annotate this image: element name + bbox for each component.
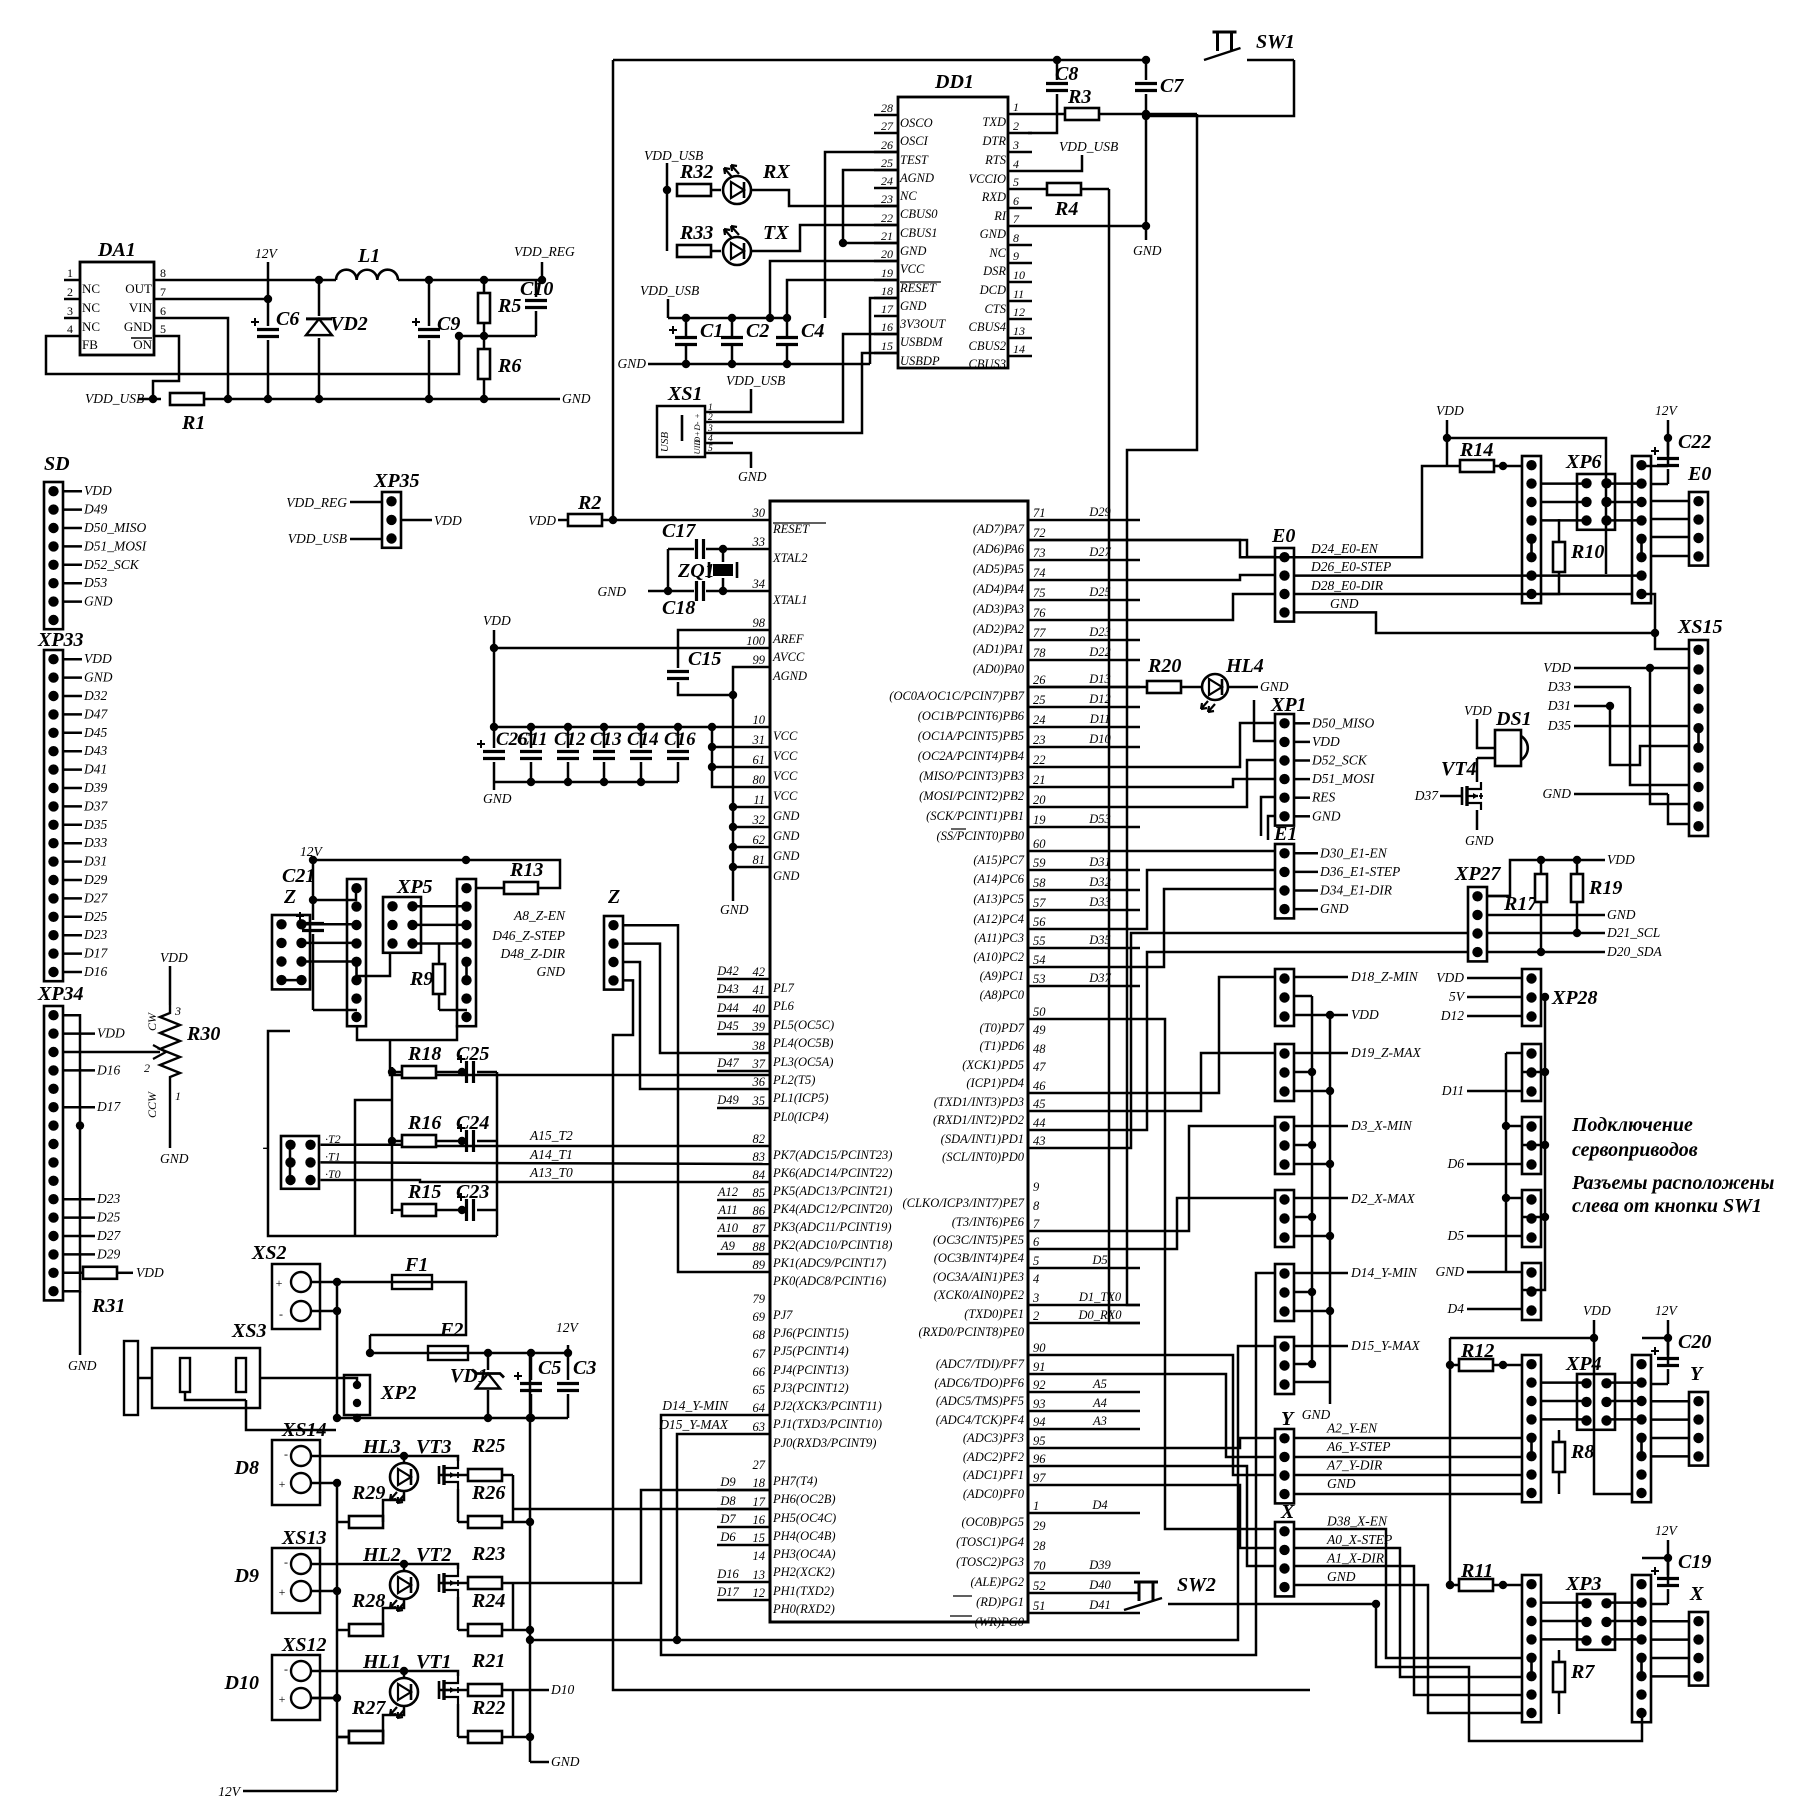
wire AGND pin25	[843, 170, 898, 243]
svg-text:E0: E0	[1271, 525, 1295, 547]
12V feed down	[529, 1352, 532, 1355]
svg-text:R18: R18	[407, 1043, 441, 1065]
SD pin VDD	[63, 490, 82, 493]
svg-text:D14_Y-MIN: D14_Y-MIN	[661, 1398, 729, 1413]
DD1 pin 20 VCC	[874, 260, 898, 263]
svg-text:45: 45	[1033, 1097, 1046, 1111]
svg-text:D33: D33	[1547, 679, 1571, 694]
svg-text:D49: D49	[716, 1093, 739, 1107]
svg-text:ON: ON	[133, 337, 152, 352]
svg-text:VDD: VDD	[528, 513, 556, 528]
svg-text:D18_Z-MIN: D18_Z-MIN	[1350, 969, 1419, 984]
svg-text:81: 81	[753, 853, 766, 867]
svg-text:D37: D37	[1088, 971, 1111, 985]
XS1 pin 2 D-	[705, 421, 716, 424]
svg-text:6: 6	[160, 304, 166, 318]
svg-text:91: 91	[1033, 1360, 1046, 1374]
svg-text:D29: D29	[83, 872, 107, 887]
svg-text:GND: GND	[160, 1151, 189, 1166]
svg-text:18: 18	[881, 284, 893, 298]
svg-text:22: 22	[881, 211, 893, 225]
svg-text:(ALE)PG2: (ALE)PG2	[971, 1575, 1024, 1589]
svg-text:(TOSC1)PG4: (TOSC1)PG4	[956, 1535, 1024, 1549]
svg-text:D32: D32	[1088, 875, 1111, 889]
svg-text:12V: 12V	[218, 1784, 242, 1799]
XP34 pin D29	[63, 1253, 95, 1256]
svg-text:89: 89	[753, 1258, 766, 1272]
wire MOSI to XP1	[1028, 779, 1275, 787]
svg-text:90: 90	[1033, 1341, 1046, 1355]
svg-text:15: 15	[753, 1531, 766, 1545]
XP33 pin D31	[63, 860, 82, 863]
svg-text:PJ3(PCINT12): PJ3(PCINT12)	[772, 1381, 849, 1395]
svg-text:XP6: XP6	[1565, 451, 1602, 473]
XP33 pin VDD	[63, 658, 82, 661]
svg-text:A7_Y-DIR: A7_Y-DIR	[1326, 1458, 1383, 1473]
svg-text:GND: GND	[84, 670, 113, 685]
driver XP4 right column	[1632, 1355, 1651, 1502]
svg-text:XP4: XP4	[1565, 1353, 1602, 1375]
svg-text:VDD: VDD	[1312, 734, 1340, 749]
svg-text:97: 97	[1033, 1471, 1046, 1485]
svg-text:2: 2	[708, 413, 713, 423]
SD pin D53	[63, 582, 82, 585]
svg-text:62: 62	[753, 833, 766, 847]
svg-text:(ADC0)PF0: (ADC0)PF0	[963, 1487, 1025, 1501]
svg-text:82: 82	[753, 1132, 766, 1146]
svg-text:5: 5	[160, 322, 166, 336]
trunk A0 X-STEP	[1028, 1485, 1275, 1548]
12V feed to channels	[336, 1483, 339, 1737]
DD1 pin 11 CTS	[1008, 300, 1032, 303]
IC MCU (ATmega2560)	[770, 501, 1028, 1622]
XP33 pin D32	[63, 695, 82, 698]
wire C22/12V to E0 right col	[1652, 483, 1668, 486]
svg-text:D13: D13	[1088, 672, 1111, 686]
svg-text:27: 27	[753, 1458, 766, 1472]
limit switch connectors column	[1275, 969, 1294, 1026]
svg-text:A4: A4	[1092, 1396, 1107, 1410]
svg-text:GND: GND	[1320, 901, 1349, 916]
svg-text:PJ6(PCINT15): PJ6(PCINT15)	[772, 1326, 849, 1340]
svg-text:CBUS2: CBUS2	[969, 339, 1007, 353]
wire R4 to RX0 column	[1109, 189, 1140, 1323]
svg-text:PJ5(PCINT14): PJ5(PCINT14)	[772, 1344, 849, 1358]
svg-text:D53: D53	[83, 575, 107, 590]
SD pin D49	[63, 508, 82, 511]
wire XS1 D- to USBDM	[716, 334, 898, 422]
svg-text:(SS/PCINT0)PB0: (SS/PCINT0)PB0	[937, 829, 1025, 843]
svg-text:R16: R16	[407, 1112, 441, 1134]
svg-text:D41: D41	[1088, 1598, 1111, 1612]
svg-text:40: 40	[753, 1002, 766, 1016]
DA1 pin 7 VIN	[154, 298, 170, 301]
svg-text:HL2: HL2	[362, 1544, 401, 1566]
svg-text:D31: D31	[1547, 698, 1571, 713]
svg-text:D38_X-EN: D38_X-EN	[1326, 1513, 1388, 1528]
svg-text:D15_Y-MAX: D15_Y-MAX	[658, 1417, 728, 1432]
svg-text:D33: D33	[83, 835, 107, 850]
E1 pin GND	[1294, 908, 1318, 911]
svg-text:R4: R4	[1054, 198, 1078, 220]
svg-text:(ADC4/TCK)PF4: (ADC4/TCK)PF4	[936, 1413, 1024, 1427]
svg-text:VT4: VT4	[1441, 758, 1477, 780]
DD1 pin 13 CBUS2	[1008, 337, 1032, 340]
svg-text:76: 76	[1033, 606, 1046, 620]
svg-text:77: 77	[1033, 626, 1046, 640]
svg-text:GND: GND	[1260, 679, 1289, 694]
svg-text:(SCL/INT0)PD0: (SCL/INT0)PD0	[942, 1150, 1025, 1164]
svg-text:RXD: RXD	[981, 190, 1006, 204]
svg-text:GND: GND	[1607, 907, 1636, 922]
svg-text:12V: 12V	[255, 246, 279, 261]
DD1 pin 19 RESET	[874, 279, 898, 282]
svg-text:DA1: DA1	[97, 239, 136, 261]
XP33 pin D16	[63, 971, 82, 974]
svg-text:PH5(OC4C): PH5(OC4C)	[772, 1511, 836, 1525]
DD1 pin 10 DCD	[1008, 281, 1032, 284]
svg-text:D50_MISO: D50_MISO	[1311, 715, 1374, 730]
svg-text:XS14: XS14	[281, 1419, 326, 1441]
svg-text:17: 17	[753, 1495, 766, 1509]
wire D21_SCL from PD0	[1028, 933, 1468, 1148]
svg-text:D19_Z-MAX: D19_Z-MAX	[1350, 1045, 1421, 1060]
svg-text:12: 12	[1013, 305, 1025, 319]
limit switch connector Y-MIN	[1275, 1264, 1294, 1321]
svg-text:RESET: RESET	[772, 522, 810, 536]
cap bank top rail	[494, 726, 770, 729]
svg-text:CBUS1: CBUS1	[900, 226, 938, 240]
svg-text:3: 3	[1012, 138, 1019, 152]
svg-text:(ADC6/TDO)PF6: (ADC6/TDO)PF6	[934, 1376, 1024, 1390]
svg-text:6: 6	[1033, 1235, 1040, 1249]
svg-text:C1: C1	[700, 320, 723, 342]
svg-text:D15_Y-MAX: D15_Y-MAX	[1350, 1338, 1420, 1353]
svg-text:AGND: AGND	[899, 171, 934, 185]
XS15 wiring	[1610, 706, 1689, 765]
svg-text:(MOSI/PCINT2)PB2: (MOSI/PCINT2)PB2	[919, 789, 1024, 803]
XP33 pin D27	[63, 897, 82, 900]
wire DD1 GND pin7	[1032, 225, 1146, 228]
svg-text:XP35: XP35	[373, 470, 420, 492]
svg-text:XS12: XS12	[281, 1634, 326, 1656]
wire XS1 UID stub	[716, 442, 733, 445]
svg-text:75: 75	[1033, 586, 1046, 600]
wire cap rail to DD1 VCC	[770, 261, 898, 318]
svg-text:C9: C9	[437, 313, 460, 335]
svg-text:E0: E0	[1687, 463, 1711, 485]
svg-text:Подключение: Подключение	[1571, 1114, 1693, 1136]
svg-text:95: 95	[1033, 1434, 1046, 1448]
svg-text:D29: D29	[96, 1246, 120, 1261]
svg-text:VDD: VDD	[1436, 970, 1464, 985]
svg-text:GND: GND	[773, 809, 799, 823]
svg-text:SD: SD	[44, 453, 70, 475]
DA1 pin 4 FB	[64, 335, 80, 338]
svg-text:PL0(ICP4): PL0(ICP4)	[772, 1110, 829, 1124]
svg-text:18: 18	[753, 1476, 766, 1490]
svg-text:(AD1)PA1: (AD1)PA1	[973, 642, 1024, 656]
svg-text:F1: F1	[404, 1254, 428, 1276]
svg-text:VDD: VDD	[1583, 1303, 1611, 1318]
svg-text:AREF: AREF	[772, 632, 804, 646]
wire R3 to TX0 column	[1127, 114, 1197, 1305]
wire XP34 GND	[79, 1291, 82, 1355]
svg-text:R33: R33	[679, 222, 713, 244]
svg-text:R24: R24	[471, 1590, 505, 1612]
wire reset loop top	[613, 59, 1146, 62]
svg-text:19: 19	[881, 266, 893, 280]
Z interconnect wires	[302, 923, 358, 926]
svg-text:C13: C13	[590, 729, 622, 750]
DA1 pin 8 OUT	[154, 279, 170, 282]
XP34 pin VDD	[63, 1032, 95, 1035]
svg-text:20: 20	[881, 247, 893, 261]
DD1 pin 18 GND	[874, 297, 898, 300]
svg-text:D35: D35	[1088, 933, 1111, 947]
svg-text:GND: GND	[773, 849, 799, 863]
node VDD from XP35	[401, 519, 432, 522]
svg-text:1: 1	[1013, 100, 1019, 114]
svg-text:68: 68	[753, 1328, 766, 1342]
svg-text:69: 69	[753, 1310, 766, 1324]
svg-text:12V: 12V	[1655, 403, 1679, 418]
svg-text:(RXD1/INT2)PD2: (RXD1/INT2)PD2	[933, 1113, 1024, 1127]
svg-text:D25: D25	[1088, 585, 1111, 599]
svg-text:39: 39	[752, 1020, 766, 1034]
svg-text:D44: D44	[716, 1001, 739, 1015]
svg-text:C3: C3	[573, 1357, 596, 1379]
svg-text:HL3: HL3	[362, 1436, 401, 1458]
svg-text:XS1: XS1	[667, 383, 702, 405]
svg-text:GND: GND	[124, 319, 152, 334]
svg-text:RTS: RTS	[984, 153, 1007, 167]
DD1 pin 8 NC	[1008, 244, 1032, 247]
svg-text:GND: GND	[738, 469, 767, 484]
svg-text:AVCC: AVCC	[772, 650, 805, 664]
svg-text:71: 71	[1033, 506, 1046, 520]
svg-text:D10: D10	[224, 1672, 259, 1694]
svg-text:A9: A9	[720, 1239, 736, 1253]
svg-text:13: 13	[1013, 324, 1025, 338]
XP33 pin D41	[63, 768, 82, 771]
svg-text:(AD5)PA5: (AD5)PA5	[973, 562, 1024, 576]
DD1 pin 23 CBUS0	[874, 205, 898, 208]
DA1 pin 6 GND	[154, 317, 170, 320]
svg-text:C14: C14	[627, 729, 659, 750]
svg-text:VCC: VCC	[773, 769, 798, 783]
svg-text:GND: GND	[1435, 1264, 1464, 1279]
svg-text:58: 58	[1033, 876, 1046, 890]
svg-text:D6: D6	[719, 1530, 736, 1544]
wires XP6 interconnect	[1542, 482, 1587, 485]
svg-text:(XCK0/AIN0)PE2: (XCK0/AIN0)PE2	[934, 1288, 1024, 1302]
svg-text:D1_TX0: D1_TX0	[1078, 1290, 1122, 1304]
wire VIN	[170, 298, 268, 301]
svg-text:13: 13	[753, 1568, 766, 1582]
right bus of RC network	[496, 1072, 499, 1210]
svg-text:OSCO: OSCO	[900, 116, 933, 130]
svg-text:93: 93	[1033, 1397, 1046, 1411]
XP33 pin D23	[63, 934, 82, 937]
DD1 pin 28 OSCO	[874, 114, 898, 117]
svg-text:TEST: TEST	[900, 153, 929, 167]
svg-text:(A10)PC2: (A10)PC2	[973, 950, 1024, 964]
svg-text:D24_E0-EN: D24_E0-EN	[1310, 541, 1379, 556]
svg-text:2: 2	[1013, 119, 1019, 133]
svg-text:Y: Y	[1281, 1408, 1295, 1430]
svg-text:-: -	[284, 1662, 288, 1676]
svg-text:R14: R14	[1459, 439, 1493, 461]
svg-text:VDD: VDD	[1351, 1007, 1379, 1022]
svg-text:20: 20	[1033, 793, 1046, 807]
svg-text:(T1)PD6: (T1)PD6	[980, 1039, 1025, 1053]
svg-text:C20: C20	[1678, 1331, 1711, 1353]
svg-text:CTS: CTS	[984, 302, 1006, 316]
svg-text:(ADC7/TDI)/PF7: (ADC7/TDI)/PF7	[936, 1357, 1025, 1371]
svg-text:D53: D53	[1088, 812, 1111, 826]
wire 12V to header	[313, 888, 356, 900]
svg-text:DD1: DD1	[934, 71, 974, 93]
svg-text:C19: C19	[1678, 1551, 1711, 1573]
svg-text:27: 27	[881, 119, 894, 133]
svg-text:(AD4)PA4: (AD4)PA4	[973, 582, 1024, 596]
svg-text:8: 8	[1033, 1199, 1040, 1213]
thermistor connector left bus	[289, 1145, 292, 1180]
svg-text:PJ0(RXD3/PCINT9): PJ0(RXD3/PCINT9)	[772, 1436, 876, 1450]
svg-text:VDD: VDD	[1464, 703, 1492, 718]
svg-text:VDD: VDD	[84, 483, 112, 498]
svg-text:16: 16	[881, 320, 893, 334]
XP33 pin GND	[63, 676, 82, 679]
svg-text:53: 53	[1033, 972, 1046, 986]
XS1 pin 5 -	[705, 452, 716, 455]
svg-text:D45: D45	[716, 1019, 739, 1033]
svg-text:D35: D35	[1547, 718, 1571, 733]
svg-text:D5: D5	[1447, 1228, 1465, 1243]
svg-text:D8: D8	[719, 1494, 736, 1508]
svg-text:A14_T1: A14_T1	[529, 1147, 573, 1162]
svg-text:GND: GND	[1327, 1569, 1356, 1584]
svg-text:D20_SDA: D20_SDA	[1606, 944, 1662, 959]
svg-text:C12: C12	[554, 729, 586, 750]
svg-text:28: 28	[1033, 1539, 1046, 1553]
svg-text:4: 4	[1033, 1272, 1039, 1286]
wire FB to divider	[459, 335, 536, 338]
svg-text:XP2: XP2	[380, 1382, 417, 1404]
svg-text:2: 2	[1033, 1309, 1039, 1323]
svg-text:38: 38	[752, 1039, 766, 1053]
svg-text:D26_E0-STEP: D26_E0-STEP	[1310, 559, 1391, 574]
svg-text:VD2: VD2	[330, 313, 368, 335]
servo header 5	[1522, 1263, 1541, 1320]
svg-text:D27: D27	[96, 1228, 121, 1243]
wire XS1 GND	[716, 453, 751, 468]
svg-text:D10: D10	[550, 1682, 574, 1697]
svg-text:NC: NC	[82, 319, 100, 334]
svg-text:C6: C6	[276, 308, 299, 330]
svg-text:12V: 12V	[1655, 1303, 1679, 1318]
svg-text:R2: R2	[577, 492, 601, 514]
wire GND pin6	[170, 318, 228, 399]
svg-text:XS2: XS2	[251, 1242, 286, 1264]
SD pin D50_MISO	[63, 527, 82, 530]
svg-text:R19: R19	[1588, 877, 1622, 899]
svg-text:GND: GND	[773, 869, 799, 883]
svg-text:3: 3	[1032, 1291, 1039, 1305]
svg-text:PJ2(XCK3/PCINT11): PJ2(XCK3/PCINT11)	[772, 1399, 882, 1413]
switch SW1	[1213, 32, 1237, 51]
svg-text:XP28: XP28	[1551, 987, 1598, 1009]
wire VCC pins bus	[712, 727, 770, 787]
net GND at XP27	[1487, 914, 1605, 917]
DD1 pin 17 3V3OUT	[874, 315, 898, 318]
DD1 pin 4 VCCIO	[1008, 170, 1032, 173]
svg-text:D36_E1-STEP: D36_E1-STEP	[1319, 864, 1400, 879]
wire D20_SDA from PD1	[1028, 952, 1468, 1130]
Y to XP4 wires	[1294, 1437, 1522, 1440]
svg-text:D39: D39	[83, 780, 107, 795]
XP34 internal bus	[63, 1015, 80, 1291]
servo header 3	[1522, 1117, 1541, 1174]
svg-text:57: 57	[1033, 896, 1046, 910]
svg-text:R5: R5	[497, 295, 521, 317]
svg-text:66: 66	[753, 1365, 766, 1379]
svg-text:84: 84	[753, 1168, 766, 1182]
cap rail top	[668, 317, 787, 320]
DA1 pin 2 NC	[64, 298, 80, 301]
svg-text:44: 44	[1033, 1116, 1046, 1130]
wire C4 to pin19	[787, 280, 898, 318]
svg-text:D7: D7	[719, 1512, 736, 1526]
svg-text:C16: C16	[664, 729, 696, 750]
svg-text:85: 85	[753, 1186, 766, 1200]
svg-text:3V3OUT: 3V3OUT	[899, 317, 946, 331]
svg-text:XTAL1: XTAL1	[772, 593, 808, 607]
svg-text:(ADC3)PF3: (ADC3)PF3	[963, 1431, 1024, 1445]
wire XS2-	[311, 1310, 337, 1313]
svg-text:(A12)PC4: (A12)PC4	[973, 912, 1024, 926]
XP1 pin D52_SCK	[1294, 759, 1310, 762]
svg-text:RI: RI	[993, 209, 1007, 223]
svg-text:(WR)PG0: (WR)PG0	[975, 1615, 1025, 1629]
svg-text:сервоприводов: сервоприводов	[1572, 1139, 1698, 1161]
svg-text:25: 25	[1033, 693, 1046, 707]
svg-text:CBUS0: CBUS0	[900, 207, 938, 221]
svg-text:3: 3	[174, 1004, 181, 1018]
svg-text:D30_E1-EN: D30_E1-EN	[1319, 845, 1388, 860]
svg-text:9: 9	[1013, 249, 1019, 263]
svg-text:12: 12	[753, 1586, 766, 1600]
wire MISO to XP1	[1028, 723, 1275, 767]
X to XP3 wires	[1294, 1529, 1522, 1658]
svg-text:24: 24	[881, 174, 893, 188]
IC DA1 (regulator)	[80, 262, 154, 355]
svg-text:(OC2A/PCINT4)PB4: (OC2A/PCINT4)PB4	[918, 749, 1024, 763]
svg-text:VT1: VT1	[416, 1651, 452, 1673]
svg-text:1: 1	[175, 1089, 181, 1103]
svg-text:GND: GND	[1330, 596, 1359, 611]
svg-text:PH7(T4): PH7(T4)	[772, 1474, 817, 1488]
svg-text:D11: D11	[1441, 1083, 1464, 1098]
svg-text:7: 7	[160, 285, 166, 299]
svg-text:C7: C7	[1160, 75, 1184, 97]
svg-text:XP5: XP5	[396, 876, 433, 898]
XP33 pin D25	[63, 916, 82, 919]
svg-text:D21_SCL: D21_SCL	[1606, 925, 1660, 940]
trunk D38 X-EN long vertical	[1028, 1019, 1275, 1529]
svg-text:59: 59	[1033, 856, 1046, 870]
